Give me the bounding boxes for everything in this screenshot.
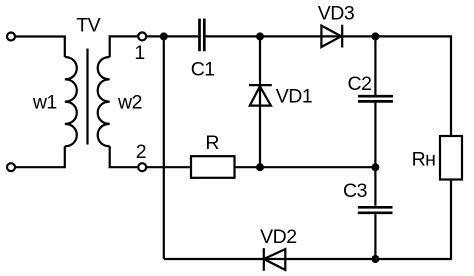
svg-text:2: 2 (136, 141, 146, 163)
svg-text:R: R (205, 132, 219, 154)
svg-text:TV: TV (76, 15, 100, 37)
svg-text:w1: w1 (32, 91, 57, 113)
svg-text:VD2: VD2 (260, 226, 296, 248)
svg-text:VD1: VD1 (276, 86, 312, 108)
svg-text:C2: C2 (348, 73, 372, 95)
svg-text:VD3: VD3 (318, 3, 354, 25)
svg-text:C3: C3 (343, 180, 367, 202)
svg-text:Rн: Rн (412, 149, 436, 171)
svg-text:w2: w2 (117, 92, 142, 114)
svg-text:1: 1 (134, 42, 144, 64)
svg-text:C1: C1 (191, 58, 215, 80)
